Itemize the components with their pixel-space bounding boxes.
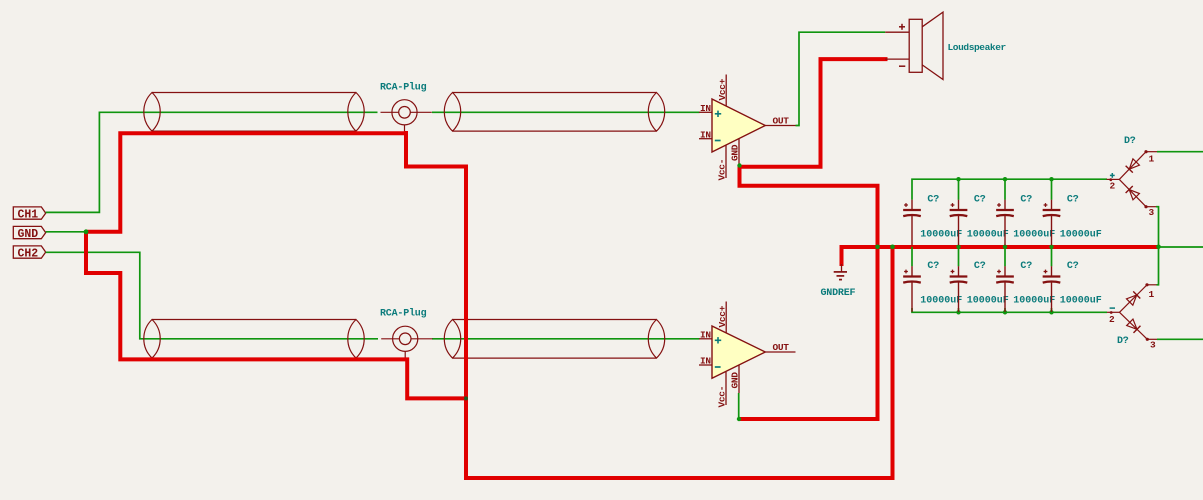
svg-text:Vcc-: Vcc- <box>717 386 728 408</box>
svg-text:C?: C? <box>1020 195 1032 206</box>
wire cap top rail <box>912 179 1107 200</box>
wire red gndref stub <box>840 247 842 266</box>
svg-text:Vcc+: Vcc+ <box>717 78 728 100</box>
junction bottom rail <box>956 310 1053 314</box>
svg-text:3: 3 <box>1150 340 1156 351</box>
svg-text:10000uF: 10000uF <box>967 229 1009 240</box>
svg-text:RCA-Plug: RCA-Plug <box>380 308 427 320</box>
svg-text:GND: GND <box>18 228 39 241</box>
capacitor C3 <box>996 195 1055 246</box>
wire RCA2 to opamp2 <box>432 338 700 340</box>
svg-text:C?: C? <box>1067 195 1079 206</box>
wire red main left <box>406 131 893 478</box>
svg-text:C?: C? <box>974 261 986 272</box>
svg-text:Loudspeaker: Loudspeaker <box>948 42 1007 53</box>
wire CH2 <box>46 252 378 338</box>
junction GND label <box>84 229 89 234</box>
svg-text:10000uF: 10000uF <box>967 295 1009 306</box>
capacitor C8 <box>1043 261 1102 312</box>
svg-text:IN: IN <box>700 103 711 114</box>
svg-text:IN: IN <box>700 330 711 341</box>
wire rail to right edge <box>1159 246 1203 248</box>
svg-text:10000uF: 10000uF <box>1060 295 1102 306</box>
wire diode2 pin3 <box>1157 338 1203 340</box>
svg-text:10000uF: 10000uF <box>1013 295 1055 306</box>
wire bottom row leads <box>912 247 1052 312</box>
junction opamp2 gnd <box>737 417 741 421</box>
svg-text:GND: GND <box>730 144 741 161</box>
svg-text:C?: C? <box>927 261 939 272</box>
svg-text:C?: C? <box>927 195 939 206</box>
label CH2 <box>13 246 45 260</box>
diode pair D1 (top) <box>1107 136 1158 218</box>
wire red left down <box>86 232 466 399</box>
wire red speaker <box>739 59 888 419</box>
svg-text:C?: C? <box>1067 261 1079 272</box>
loudspeaker LS1 <box>885 12 1006 79</box>
wire red coax1 bottom <box>86 133 406 232</box>
coax cable top-left <box>144 93 364 132</box>
label CH1 <box>13 207 45 221</box>
wire RCA1 to opamp1 <box>432 111 700 113</box>
svg-text:1: 1 <box>1149 289 1155 300</box>
wire cap top leads <box>959 179 1052 200</box>
svg-text:D?: D? <box>1124 136 1136 147</box>
svg-text:IN: IN <box>700 356 711 367</box>
svg-text:C?: C? <box>1020 261 1032 272</box>
svg-text:CH2: CH2 <box>18 247 39 260</box>
svg-text:Vcc-: Vcc- <box>717 159 728 181</box>
wire diode1 pin1 <box>1157 151 1203 153</box>
op-amp U2 <box>699 302 796 408</box>
junction red bottom corner <box>464 396 468 400</box>
svg-text:CH1: CH1 <box>18 208 39 221</box>
svg-text:10000uF: 10000uF <box>920 229 962 240</box>
svg-text:2: 2 <box>1110 181 1116 192</box>
capacitor C2 <box>950 195 1009 246</box>
diode pair D2 (bottom) <box>1107 283 1157 350</box>
svg-text:1: 1 <box>1149 154 1155 165</box>
capacitor C5 <box>903 261 962 312</box>
op-amp U1 <box>699 75 796 181</box>
coax cable bottom-right <box>444 320 664 359</box>
wire diode2 pin1 to rail <box>1157 247 1159 285</box>
svg-text:10000uF: 10000uF <box>1060 229 1102 240</box>
ground GNDREF <box>821 264 856 299</box>
capacitor C7 <box>996 261 1055 312</box>
svg-text:3: 3 <box>1149 207 1155 218</box>
capacitor C4 <box>1043 195 1102 246</box>
svg-text:RCA-Plug: RCA-Plug <box>380 82 427 94</box>
capacitor C6 <box>950 261 1009 312</box>
label GND <box>13 226 45 240</box>
junction top rail <box>956 177 1053 181</box>
svg-text:OUT: OUT <box>773 342 790 353</box>
wire cap bottom rail <box>912 308 1107 312</box>
wire diode1 pin3 to rail <box>1156 207 1159 247</box>
svg-text:C?: C? <box>974 195 986 206</box>
RCA plug 2 <box>380 308 433 360</box>
junction red rail dots <box>875 245 1161 250</box>
junction opamp1 gnd <box>737 163 741 167</box>
svg-text:GNDREF: GNDREF <box>821 288 856 299</box>
RCA plug 1 <box>380 82 432 134</box>
wire opamp2 gnd <box>738 393 740 419</box>
wire GND label <box>46 231 86 233</box>
wire out1 to speaker <box>796 32 886 125</box>
svg-text:GND: GND <box>730 372 741 389</box>
svg-text:10000uF: 10000uF <box>1013 229 1055 240</box>
coax cable top-right <box>444 93 664 132</box>
coax cable bottom-left <box>144 320 364 359</box>
capacitor C1 <box>903 195 962 246</box>
svg-text:Vcc+: Vcc+ <box>717 305 728 327</box>
wire CH1 <box>46 112 378 212</box>
svg-text:IN: IN <box>700 129 711 140</box>
svg-text:OUT: OUT <box>773 116 790 127</box>
svg-text:D?: D? <box>1117 336 1129 347</box>
svg-text:2: 2 <box>1109 314 1115 325</box>
wire red rail <box>840 245 1159 249</box>
svg-text:10000uF: 10000uF <box>920 295 962 306</box>
